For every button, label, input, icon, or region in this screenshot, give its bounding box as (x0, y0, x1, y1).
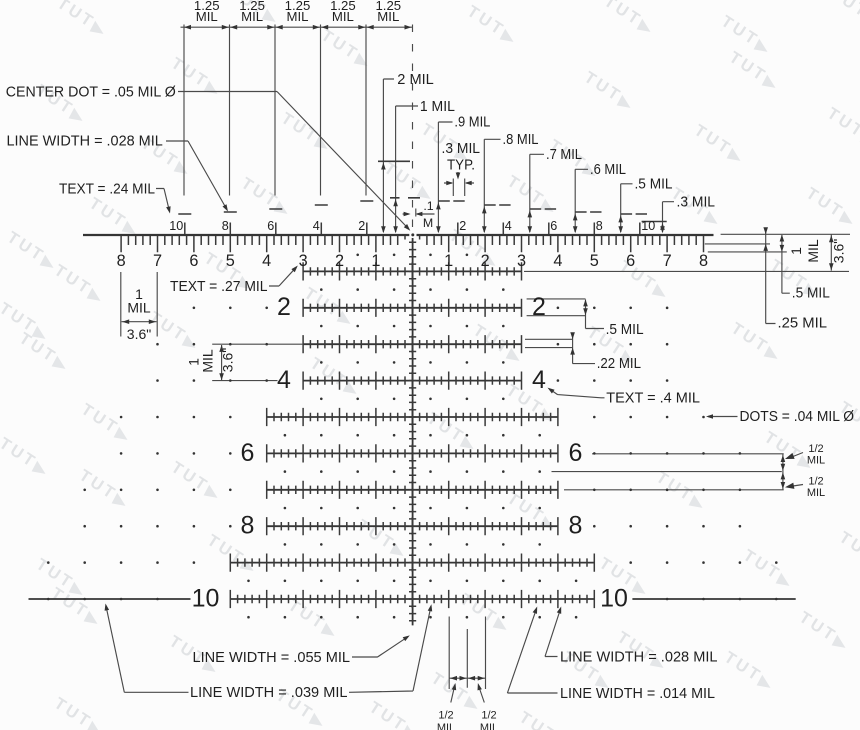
svg-text:MIL: MIL (807, 455, 825, 467)
svg-text:2 MIL: 2 MIL (397, 71, 434, 88)
svg-text:MIL: MIL (807, 487, 825, 499)
svg-text:LINE WIDTH = .055 MIL: LINE WIDTH = .055 MIL (193, 649, 351, 666)
svg-text:MIL: MIL (200, 349, 216, 373)
svg-text:4: 4 (553, 252, 562, 270)
svg-text:5: 5 (226, 252, 235, 270)
svg-text:.1: .1 (423, 199, 433, 213)
svg-text:10: 10 (600, 584, 628, 612)
svg-text:4: 4 (313, 219, 320, 233)
svg-text:2: 2 (532, 293, 546, 321)
svg-text:8: 8 (117, 252, 126, 270)
svg-text:2: 2 (481, 252, 490, 270)
svg-text:4: 4 (532, 366, 546, 394)
svg-text:6: 6 (569, 439, 583, 467)
svg-text:2: 2 (358, 219, 365, 233)
svg-text:.5 MIL: .5 MIL (635, 175, 673, 192)
svg-text:7: 7 (153, 252, 162, 270)
svg-text:MIL: MIL (127, 300, 151, 316)
svg-text:.5 MIL: .5 MIL (606, 321, 644, 338)
svg-text:6: 6 (267, 219, 274, 233)
svg-text:8: 8 (699, 252, 708, 270)
svg-text:DOTS = .04 MIL Ø: DOTS = .04 MIL Ø (740, 408, 855, 425)
svg-text:10: 10 (192, 584, 220, 612)
svg-text:MIL: MIL (480, 722, 498, 730)
svg-text:6: 6 (626, 252, 635, 270)
svg-text:2: 2 (277, 293, 291, 321)
svg-text:MIL: MIL (377, 9, 399, 24)
svg-text:LINE WIDTH = .039 MIL: LINE WIDTH = .039 MIL (190, 684, 348, 701)
svg-text:.3 MIL: .3 MIL (677, 193, 716, 210)
svg-text:MIL: MIL (287, 9, 309, 24)
svg-text:1/2: 1/2 (438, 710, 453, 722)
svg-text:8: 8 (241, 512, 255, 540)
svg-text:10: 10 (641, 219, 655, 233)
svg-text:6: 6 (189, 252, 198, 270)
svg-text:10: 10 (169, 219, 183, 233)
svg-text:3.6": 3.6" (127, 326, 151, 342)
svg-text:CENTER DOT = .05 MIL Ø: CENTER DOT = .05 MIL Ø (6, 83, 176, 100)
svg-text:.7 MIL: .7 MIL (546, 146, 582, 163)
svg-text:MIL: MIL (332, 9, 354, 24)
svg-text:6: 6 (550, 219, 557, 233)
svg-text:MIL: MIL (805, 239, 821, 263)
svg-text:.9 MIL: .9 MIL (454, 113, 490, 130)
svg-text:1/2: 1/2 (808, 476, 823, 488)
svg-text:MIL: MIL (437, 722, 455, 730)
svg-text:3: 3 (299, 252, 308, 270)
svg-text:LINE WIDTH = .014 MIL: LINE WIDTH = .014 MIL (560, 685, 715, 702)
svg-text:7: 7 (663, 252, 672, 270)
svg-text:4: 4 (277, 366, 291, 394)
svg-text:TEXT = .4 MIL: TEXT = .4 MIL (606, 389, 700, 406)
svg-text:2: 2 (335, 252, 344, 270)
svg-text:.22 MIL: .22 MIL (597, 355, 641, 372)
svg-text:5: 5 (590, 252, 599, 270)
svg-text:8: 8 (596, 219, 603, 233)
svg-text:4: 4 (262, 252, 271, 270)
svg-text:LINE WIDTH = .028 MIL: LINE WIDTH = .028 MIL (7, 133, 163, 150)
svg-text:.8 MIL: .8 MIL (503, 131, 539, 148)
svg-text:4: 4 (505, 219, 512, 233)
svg-text:.3 MIL: .3 MIL (442, 140, 481, 157)
svg-text:MIL: MIL (196, 9, 218, 24)
svg-text:.6 MIL: .6 MIL (590, 161, 626, 178)
svg-text:6: 6 (241, 439, 255, 467)
svg-text:.25 MIL: .25 MIL (778, 315, 828, 332)
svg-text:1: 1 (371, 252, 380, 270)
svg-text:1: 1 (444, 252, 453, 270)
svg-text:M: M (423, 216, 433, 230)
svg-text:1: 1 (788, 247, 804, 255)
svg-text:1/2: 1/2 (481, 710, 496, 722)
svg-text:3.6": 3.6" (220, 348, 236, 372)
svg-text:.5 MIL: .5 MIL (792, 285, 830, 302)
svg-text:TYP.: TYP. (447, 156, 475, 173)
svg-text:TEXT = .27 MIL: TEXT = .27 MIL (170, 278, 268, 295)
svg-text:1/2: 1/2 (808, 443, 823, 455)
svg-text:3.6": 3.6" (831, 239, 847, 263)
svg-text:LINE WIDTH = .028 MIL: LINE WIDTH = .028 MIL (560, 648, 718, 665)
svg-text:TEXT = .24 MIL: TEXT = .24 MIL (59, 180, 155, 197)
svg-text:8: 8 (222, 219, 229, 233)
svg-text:1 MIL: 1 MIL (420, 98, 455, 115)
svg-text:2: 2 (459, 219, 466, 233)
svg-text:MIL: MIL (241, 9, 263, 24)
svg-text:8: 8 (569, 512, 583, 540)
svg-text:3: 3 (517, 252, 526, 270)
